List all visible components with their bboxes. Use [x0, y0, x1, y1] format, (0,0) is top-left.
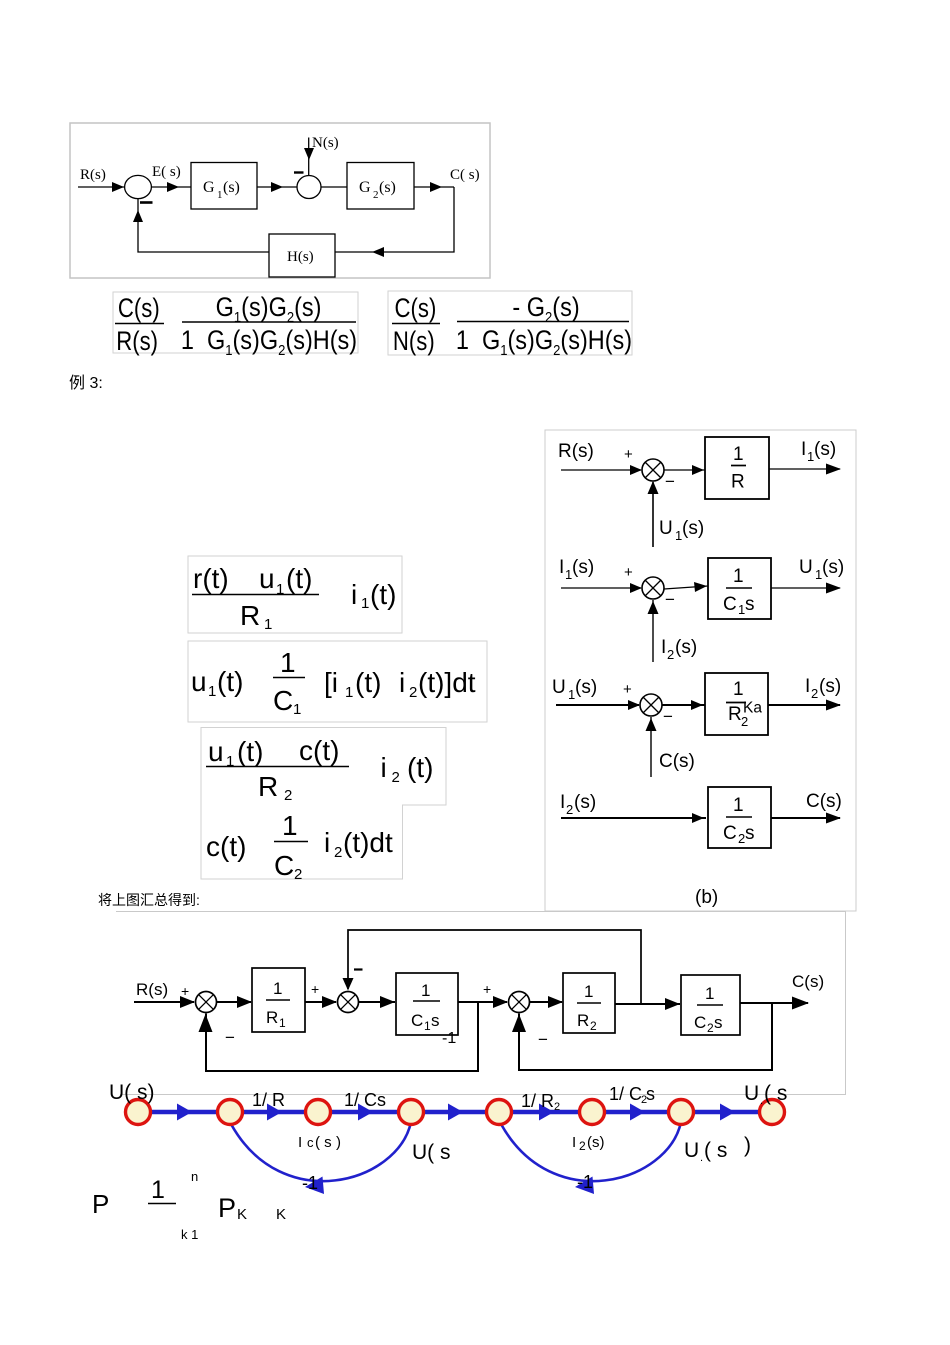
svg-text:1: 1 — [293, 701, 301, 718]
svg-text:2: 2 — [284, 787, 292, 804]
svg-text:−: − — [663, 707, 673, 726]
svg-text:i: i — [351, 579, 357, 610]
wire input row3 — [556, 704, 639, 706]
svg-text:1: 1 — [733, 444, 744, 465]
svg-text:s: s — [431, 1011, 440, 1030]
summing junction S2 — [338, 992, 359, 1013]
arrowhead on arc 1 — [305, 1177, 324, 1195]
svg-text:I: I — [560, 792, 565, 813]
svg-text:i: i — [381, 752, 387, 783]
svg-text:1/ C: 1/ C — [609, 1084, 642, 1104]
svg-text:R(s): R(s) — [136, 980, 168, 999]
wire S1 to 1/R1 — [217, 1001, 252, 1003]
svg-text:−: − — [665, 590, 675, 609]
svg-text:N(s): N(s) — [393, 327, 435, 357]
wire bottom feedback 1 from C1s output to S1 — [206, 1002, 478, 1071]
svg-text:n: n — [191, 1169, 198, 1184]
svg-text:U: U — [659, 518, 673, 539]
block H(s) — [269, 234, 335, 277]
svg-text:1: 1 — [273, 979, 282, 998]
svg-text:I: I — [572, 1134, 576, 1151]
block 1/R2 — [563, 973, 615, 1033]
svg-text:1: 1 — [151, 1176, 165, 1204]
svg-text:H(s): H(s) — [287, 249, 314, 265]
node 1 — [126, 1100, 151, 1125]
svg-text:2: 2 — [741, 714, 748, 729]
svg-text:2: 2 — [811, 686, 818, 701]
svg-text:U: U — [744, 1082, 759, 1105]
block G2(s) — [347, 163, 414, 210]
svg-text:(b): (b) — [695, 887, 718, 908]
svg-text:N(s): N(s) — [312, 135, 339, 151]
svg-text:-1: -1 — [442, 1030, 456, 1047]
svg-text:(s): (s) — [575, 677, 597, 698]
arrowheads on spine — [177, 1104, 192, 1121]
svg-text:K: K — [237, 1206, 247, 1223]
svg-text:[i: [i — [324, 667, 338, 698]
svg-text:I: I — [559, 557, 564, 578]
svg-text:2: 2 — [294, 866, 302, 883]
svg-text:1: 1 — [733, 795, 744, 816]
summing junction S3 — [509, 992, 530, 1013]
svg-text:+: + — [623, 681, 632, 698]
svg-text:( s: ( s — [764, 1082, 787, 1105]
blue branch arc 2 (gain -1) from node7 to node5 — [501, 1122, 681, 1181]
svg-text:1: 1 — [276, 581, 284, 598]
svg-text:s: s — [646, 1084, 655, 1104]
svg-text:1: 1 — [279, 1016, 286, 1030]
svg-text:2: 2 — [566, 802, 573, 817]
svg-text:R: R — [577, 1011, 589, 1030]
svg-text:(s): (s) — [223, 179, 240, 196]
svg-text:U: U — [799, 557, 813, 578]
svg-text:s: s — [714, 1013, 723, 1032]
wire S3 to 1/R2 — [530, 1001, 563, 1003]
svg-text:u: u — [208, 736, 224, 767]
minus sign S2 top — [354, 968, 363, 970]
frame of top diagram figure — [70, 123, 490, 278]
svg-text:( s: ( s — [704, 1139, 727, 1162]
svg-text:c(t): c(t) — [206, 831, 246, 862]
block 1/C2s — [708, 787, 771, 848]
svg-text:P: P — [92, 1189, 109, 1219]
svg-text:+: + — [624, 446, 633, 463]
svg-text:): ) — [744, 1134, 751, 1157]
svg-text:(s): (s) — [682, 518, 704, 539]
wire block to U1(s) row2 — [771, 587, 840, 589]
svg-text:K: K — [276, 1206, 286, 1223]
svg-text:+: + — [311, 981, 319, 997]
wire block to I2(s) row3 — [768, 704, 840, 706]
equation box 1: (r(t)-u1(t))/R1 = i1(t) — [188, 556, 402, 633]
equation box 3+4 L-shaped: (u1(t)-c(t))/R2 = i2(t); c(t)=1/C2 ∫ i2(t)dt — [201, 728, 446, 880]
svg-text:C: C — [273, 685, 293, 716]
node 2 — [218, 1100, 243, 1125]
wire input row1 — [561, 469, 641, 471]
block 1/C2s — [681, 975, 740, 1035]
svg-text:i: i — [399, 667, 405, 698]
arrowhead on arc 2 — [575, 1177, 594, 1195]
svg-text:c: c — [307, 1135, 314, 1150]
node 4 — [399, 1100, 424, 1125]
svg-text:(s): (s) — [675, 637, 697, 658]
svg-text:I: I — [661, 637, 666, 658]
svg-text:1 G1(s)G2(s)H(s): 1 G1(s)G2(s)H(s) — [181, 326, 357, 359]
svg-text:R: R — [266, 1008, 278, 1027]
wire block to C(s) row4 — [771, 817, 840, 819]
svg-text:R(s): R(s) — [558, 441, 594, 462]
summing junction S1 — [125, 175, 152, 198]
summing junction B3 — [640, 694, 662, 716]
svg-text:C: C — [694, 1013, 706, 1032]
wire I2(s) feedback up into B2 — [652, 600, 654, 662]
svg-text:I: I — [805, 676, 810, 697]
svg-text:1: 1 — [226, 753, 234, 770]
svg-text:R: R — [728, 704, 742, 725]
svg-text:-1: -1 — [577, 1172, 593, 1192]
svg-text:(t): (t) — [286, 563, 312, 594]
wire S2 to 1/C1s — [359, 1001, 396, 1003]
svg-text:1: 1 — [208, 683, 216, 700]
svg-text:R: R — [240, 600, 260, 631]
svg-text:C: C — [411, 1011, 423, 1030]
svg-text:1 G1(s)G2(s)H(s): 1 G1(s)G2(s)H(s) — [456, 326, 632, 359]
svg-text:1: 1 — [733, 566, 744, 587]
svg-text:R: R — [731, 472, 745, 493]
blue spine wire — [138, 1110, 772, 1114]
svg-text:s: s — [745, 594, 755, 615]
svg-text:+: + — [483, 981, 491, 997]
node 5 — [487, 1100, 512, 1125]
svg-text:(s): (s) — [574, 792, 596, 813]
block 1/R1 — [252, 968, 305, 1032]
wire input row4 — [561, 817, 706, 819]
svg-text:c(t): c(t) — [299, 735, 339, 766]
frame of (b) figure — [545, 430, 856, 911]
svg-text:-1: -1 — [302, 1173, 318, 1193]
svg-text:s: s — [745, 823, 755, 844]
block 1/C1s — [396, 973, 458, 1035]
wire C(s) feedback up into B3 — [650, 717, 652, 777]
svg-text:(s): (s) — [822, 557, 844, 578]
wire: S2 to G2 — [321, 186, 347, 188]
summing junction S2 — [297, 176, 321, 199]
summing junction B2 — [642, 577, 664, 599]
svg-text:k 1: k 1 — [181, 1227, 198, 1242]
svg-text:C(s): C(s) — [659, 751, 695, 772]
svg-text:(s): (s) — [587, 1134, 605, 1151]
minus sign above S2 — [294, 171, 304, 173]
svg-text:C: C — [723, 594, 737, 615]
node 3 — [306, 1100, 331, 1125]
wire S to block row3 — [662, 704, 705, 706]
svg-text:(t): (t) — [407, 752, 433, 783]
svg-text:2: 2 — [392, 769, 400, 786]
svg-text:(t)]dt: (t)]dt — [418, 667, 476, 698]
svg-text:2: 2 — [707, 1021, 714, 1035]
wire: G1 to summer S2 — [257, 186, 297, 188]
wire U1(s) feedback up into B1 — [652, 482, 654, 547]
svg-text:1: 1 — [584, 982, 593, 1001]
svg-text:2: 2 — [667, 647, 674, 662]
wire S to block row2 — [664, 586, 708, 589]
svg-text:1: 1 — [280, 647, 296, 678]
svg-text:(s): (s) — [814, 439, 836, 460]
svg-text:U( s: U( s — [412, 1141, 451, 1164]
node 6 — [580, 1100, 605, 1125]
svg-text:(t): (t) — [355, 667, 381, 698]
svg-text:): ) — [336, 1134, 341, 1151]
svg-text:- G2(s): - G2(s) — [512, 293, 579, 326]
frame of combined diagram figure — [116, 912, 846, 1095]
wire input into S1 — [134, 1001, 194, 1003]
svg-text:C(s): C(s) — [395, 294, 437, 324]
svg-text:1: 1 — [345, 684, 353, 701]
svg-text:C( s): C( s) — [450, 167, 480, 183]
block G1(s) — [191, 163, 257, 210]
blue branch arc 1 (gain -1) from node4 to node2 — [231, 1122, 411, 1181]
wire input row2 — [561, 587, 641, 589]
wire 1/C1s to S3 — [458, 1001, 507, 1003]
wire top feedback from R2 output up over to S2 — [348, 930, 641, 1004]
svg-text:1/ R: 1/ R — [252, 1090, 285, 1110]
svg-text:+: + — [624, 564, 633, 581]
svg-text:G1(s)G2(s): G1(s)G2(s) — [216, 293, 322, 326]
block 1/R — [705, 437, 769, 499]
block 1/C1s — [708, 558, 771, 619]
svg-text:2: 2 — [373, 189, 379, 201]
svg-text:C: C — [723, 823, 737, 844]
wire: R(s) input arrow into summer S1 — [78, 186, 124, 188]
svg-text:u: u — [259, 563, 275, 594]
svg-text:1/ Cs: 1/ Cs — [344, 1090, 386, 1110]
svg-text:I: I — [298, 1134, 302, 1151]
summing junction B1 — [642, 459, 664, 481]
wire: S1 to G1 with arrowhead — [151, 186, 191, 188]
svg-text:1: 1 — [705, 984, 714, 1003]
formula box C(s)/R(s) — [113, 292, 358, 353]
svg-text:−: − — [665, 472, 675, 491]
wire 1/R1 to S2 — [305, 1001, 336, 1003]
svg-text:(t): (t) — [217, 666, 243, 697]
block 1/R2 Ka — [705, 673, 768, 735]
svg-text:(t)dt: (t)dt — [343, 827, 393, 858]
svg-text:P: P — [218, 1193, 236, 1223]
wire: G2 to C(s) output — [414, 186, 454, 188]
svg-text:1: 1 — [421, 981, 430, 1000]
wire bottom feedback 2 from output to S3 — [519, 1003, 772, 1070]
svg-text:1: 1 — [264, 616, 272, 633]
svg-text:1/ R: 1/ R — [521, 1091, 554, 1111]
svg-text:U: U — [684, 1139, 699, 1162]
svg-text:.: . — [760, 1095, 763, 1107]
svg-text:2: 2 — [554, 1101, 560, 1113]
wire 1/R2 to 1/C2s — [615, 1003, 680, 1005]
formula box C(s)/N(s) — [388, 291, 632, 355]
svg-text:G: G — [203, 179, 215, 196]
svg-text:R: R — [258, 771, 278, 802]
svg-text:i: i — [324, 827, 330, 858]
svg-text:+: + — [181, 983, 189, 999]
svg-text:( s: ( s — [315, 1134, 332, 1151]
wire S to block row1 — [664, 469, 705, 471]
equation box 2: u1(t) = 1/C1 ∫[i1(t)-i2(t)]dt — [188, 641, 487, 722]
svg-text:将上图汇总得到:: 将上图汇总得到: — [98, 892, 200, 908]
svg-text:(s): (s) — [819, 676, 841, 697]
svg-text:u: u — [191, 666, 207, 697]
svg-text:C(s): C(s) — [792, 972, 824, 991]
svg-text:r(t): r(t) — [193, 563, 229, 594]
svg-text:U: U — [552, 677, 566, 698]
wire: N(s) arrow down into S2 — [308, 138, 310, 176]
wire block to I1(s) — [769, 468, 840, 470]
svg-text:1: 1 — [282, 810, 298, 841]
svg-text:U( s): U( s) — [109, 1081, 155, 1104]
svg-text:2: 2 — [590, 1019, 597, 1033]
svg-text:2: 2 — [409, 684, 417, 701]
svg-text:C(s): C(s) — [118, 294, 160, 324]
svg-text:2: 2 — [334, 844, 342, 861]
svg-text:R(s): R(s) — [80, 167, 106, 183]
svg-text:1: 1 — [733, 679, 744, 700]
svg-text:2: 2 — [579, 1139, 586, 1153]
summing junction S1 — [196, 992, 217, 1013]
node 8 — [760, 1100, 785, 1125]
wire: output down to feedback line — [335, 187, 454, 252]
svg-text:(t): (t) — [237, 736, 263, 767]
svg-text:R(s): R(s) — [116, 327, 158, 357]
svg-text:.: . — [700, 1152, 703, 1164]
wire: H(s) back to S1 — [138, 199, 269, 252]
svg-text:(s): (s) — [379, 179, 396, 196]
svg-text:(s): (s) — [572, 557, 594, 578]
svg-text:I: I — [801, 439, 806, 460]
svg-text:C(s): C(s) — [806, 791, 842, 812]
svg-text:C: C — [274, 850, 294, 881]
minus sign at S1 lower left — [140, 201, 153, 204]
node 7 — [669, 1100, 694, 1125]
svg-text:1: 1 — [217, 189, 223, 201]
svg-text:例 3:: 例 3: — [69, 374, 103, 392]
svg-text:(t): (t) — [370, 579, 396, 610]
svg-text:−: − — [225, 1028, 235, 1047]
svg-text:E( s): E( s) — [152, 164, 181, 180]
wire output to C(s) — [740, 1002, 808, 1004]
svg-text:−: − — [538, 1030, 548, 1049]
svg-text:G: G — [359, 179, 371, 196]
svg-text:1: 1 — [424, 1019, 431, 1033]
svg-text:1: 1 — [361, 595, 369, 612]
